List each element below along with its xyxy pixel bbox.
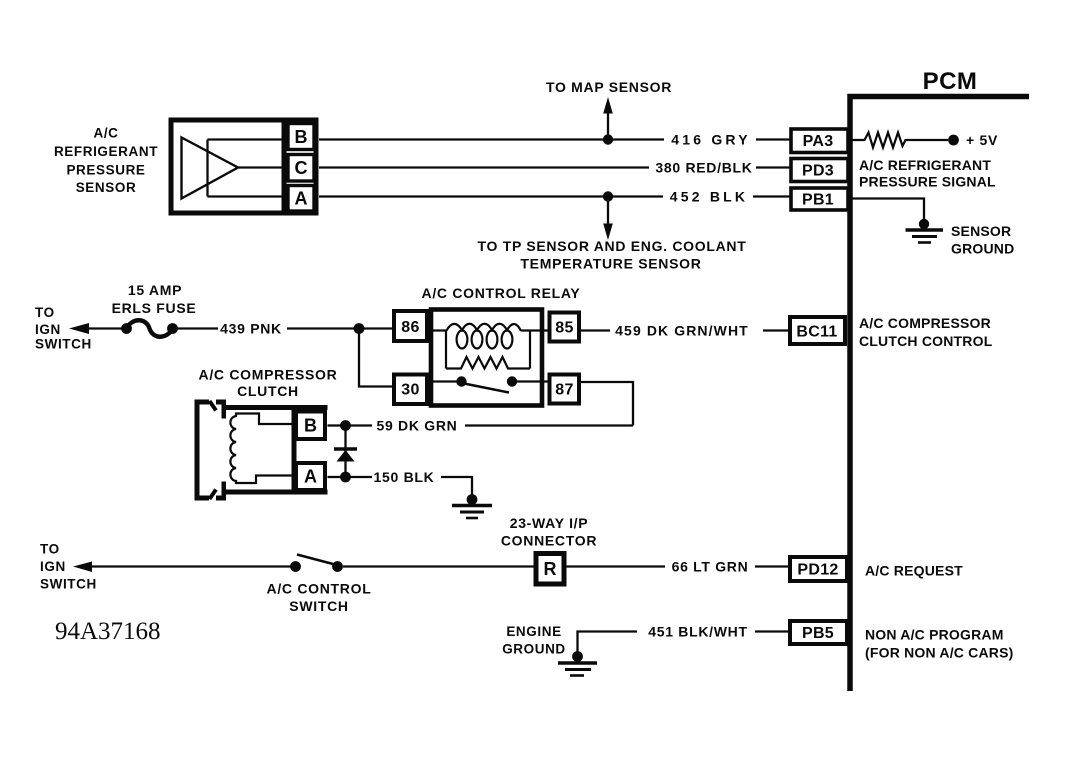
PCM pin PA3 — [791, 129, 848, 153]
wire 150 BLK clutch A to ground — [328, 476, 373, 478]
PCM pin PB5 — [790, 621, 847, 644]
svg-text:94A37168: 94A37168 — [55, 618, 161, 645]
relay coil shunt resistor — [446, 331, 530, 369]
svg-text:A/C REFRIGERANT: A/C REFRIGERANT — [859, 157, 991, 173]
sensor pin A — [288, 186, 314, 212]
svg-text:439 PNK: 439 PNK — [220, 321, 282, 337]
sensor amplifier triangle — [182, 138, 239, 199]
clutch pin A — [296, 463, 325, 490]
svg-text:SWITCH: SWITCH — [40, 577, 97, 592]
PCM enclosure line — [848, 94, 1030, 691]
wire 59 DK GRN clutch B — [328, 424, 634, 426]
svg-text:TO: TO — [40, 542, 60, 557]
arrow to IGN switch (bottom) — [73, 562, 293, 573]
compressor clutch body — [222, 405, 328, 495]
svg-text:+ 5V: + 5V — [966, 132, 998, 148]
junction on 452 BLK wire — [603, 191, 613, 201]
svg-text:15 AMP: 15 AMP — [128, 282, 182, 298]
svg-text:ENGINE: ENGINE — [506, 624, 561, 639]
svg-text:PA3: PA3 — [803, 133, 834, 150]
svg-text:A/C REQUEST: A/C REQUEST — [865, 563, 963, 579]
label TO IGN SWITCH (top) — [35, 305, 92, 352]
label 23-WAY I/P CONNECTOR — [501, 515, 597, 549]
svg-text:IGN: IGN — [40, 559, 66, 574]
A/C control switch S1 — [290, 555, 536, 572]
svg-text:TO MAP SENSOR: TO MAP SENSOR — [546, 79, 672, 95]
arrow to MAP sensor — [603, 97, 613, 140]
junction at clutch A — [340, 472, 351, 483]
junction at clutch B — [340, 420, 351, 431]
label A/C CONTROL SWITCH — [267, 581, 372, 615]
svg-text:A: A — [295, 189, 308, 209]
svg-text:451 BLK/WHT: 451 BLK/WHT — [648, 624, 748, 640]
relay pin 30 — [394, 375, 427, 405]
relay pin 85 — [550, 313, 580, 342]
wire PB1 to sensor ground — [850, 199, 924, 223]
PCM pin PD3 — [791, 159, 848, 182]
svg-text:TO TP SENSOR AND ENG. COOLANT: TO TP SENSOR AND ENG. COOLANT — [478, 238, 747, 254]
svg-text:PCM: PCM — [923, 68, 978, 95]
wire 66 LT GRN to PD12 — [564, 565, 790, 567]
svg-text:452 BLK: 452 BLK — [670, 189, 748, 205]
svg-text:ERLS FUSE: ERLS FUSE — [112, 300, 197, 316]
wire 439 PNK fuse to relay — [177, 327, 394, 329]
relay pin 86 — [394, 311, 427, 341]
svg-text:23-WAY I/P: 23-WAY I/P — [510, 515, 589, 531]
svg-text:A/C: A/C — [93, 126, 118, 141]
svg-text:SENSOR: SENSOR — [76, 180, 137, 195]
wire 459 DK GRN/WHT relay 85 to BC11 — [579, 329, 790, 331]
svg-text:B: B — [304, 416, 317, 436]
svg-text:CLUTCH: CLUTCH — [237, 383, 299, 399]
sensor U1 label "A/C REFRIGERANT PRESSURE SENSOR" — [54, 126, 158, 196]
svg-text:A/C CONTROL RELAY: A/C CONTROL RELAY — [422, 285, 581, 301]
wire 452 BLK from sensor pin A to PB1 — [319, 195, 790, 197]
sensor internal wiring — [208, 140, 285, 197]
fuse F1 15A ERLS — [121, 320, 178, 337]
svg-text:PB5: PB5 — [802, 625, 834, 642]
svg-text:SWITCH: SWITCH — [35, 337, 92, 352]
svg-text:A/C COMPRESSOR: A/C COMPRESSOR — [199, 367, 338, 383]
engine ground symbol — [558, 663, 597, 676]
clutch coil inner connector — [230, 414, 294, 484]
relay pin 87 — [550, 375, 580, 404]
clamping diode D1 — [334, 426, 357, 478]
svg-text:BC11: BC11 — [796, 324, 837, 341]
clutch ground symbol — [452, 506, 492, 519]
svg-text:TEMPERATURE SENSOR: TEMPERATURE SENSOR — [520, 256, 701, 272]
svg-text:A/C CONTROL: A/C CONTROL — [267, 581, 372, 597]
compressor clutch plate bracket — [195, 400, 227, 501]
svg-text:R: R — [544, 559, 557, 579]
23-way I/P connector R — [536, 554, 564, 585]
svg-text:150 BLK: 150 BLK — [374, 469, 435, 485]
sensor ground junction — [919, 219, 929, 229]
clutch ground junction — [467, 494, 478, 505]
svg-text:CONNECTOR: CONNECTOR — [501, 533, 597, 549]
svg-text:416 GRY: 416 GRY — [671, 132, 750, 148]
svg-text:NON A/C PROGRAM: NON A/C PROGRAM — [865, 627, 1004, 643]
svg-text:87: 87 — [555, 382, 573, 399]
wire 380 RED/BLK from sensor pin C to PD3 — [319, 166, 790, 168]
svg-text:459 DK GRN/WHT: 459 DK GRN/WHT — [615, 323, 749, 339]
sensor pin B — [288, 124, 314, 150]
label TO TP SENSOR AND ENG. COOLANT TEMPERATURE SENSOR — [478, 238, 747, 272]
svg-text:85: 85 — [555, 320, 573, 337]
svg-text:(FOR NON A/C CARS): (FOR NON A/C CARS) — [865, 645, 1014, 661]
junction on 416 GRY wire — [603, 134, 613, 144]
label A/C COMPRESSOR CLUTCH — [199, 367, 338, 400]
label 15 AMP ERLS FUSE — [112, 282, 197, 316]
svg-text:SWITCH: SWITCH — [289, 598, 348, 614]
engine ground junction — [572, 651, 583, 662]
svg-text:PD12: PD12 — [797, 562, 838, 579]
svg-text:PRESSURE: PRESSURE — [66, 163, 145, 178]
relay K1 body — [431, 310, 542, 406]
svg-text:A/C COMPRESSOR: A/C COMPRESSOR — [859, 315, 991, 331]
A/C refrigerant pressure sensor U1 body — [171, 118, 316, 214]
arrow to IGN switch — [69, 323, 122, 334]
label ENGINE GROUND — [502, 624, 566, 657]
svg-text:A: A — [304, 467, 317, 487]
wire junction down to relay pin 30 — [359, 329, 394, 387]
arrow to TP sensor — [603, 197, 613, 241]
svg-text:IGN: IGN — [35, 322, 61, 337]
label A/C REFRIGERANT PRESSURE SIGNAL — [859, 157, 996, 190]
label A/C COMPRESSOR CLUTCH CONTROL — [859, 315, 993, 349]
wire 451 BLK/WHT engine ground to PB5 — [578, 632, 791, 655]
PCM pin PB1 — [791, 188, 848, 210]
svg-text:30: 30 — [401, 382, 419, 399]
relay switch contacts — [429, 376, 550, 392]
pull-up resistor to +5V — [850, 133, 948, 148]
svg-text:TO: TO — [35, 305, 55, 320]
sensor pin C — [288, 155, 314, 182]
svg-text:66 LT GRN: 66 LT GRN — [672, 559, 749, 575]
svg-text:59 DK GRN: 59 DK GRN — [377, 418, 458, 434]
svg-text:B: B — [295, 127, 308, 147]
sensor ground symbol — [906, 230, 944, 243]
svg-text:CLUTCH CONTROL: CLUTCH CONTROL — [859, 333, 993, 349]
PCM pin BC11 — [790, 317, 845, 344]
svg-text:86: 86 — [401, 319, 419, 336]
svg-text:PD3: PD3 — [802, 163, 834, 180]
label NON A/C PROGRAM (FOR NON A/C CARS) — [865, 627, 1014, 661]
wire relay 87 down to clutch feed — [579, 382, 633, 426]
relay coil — [429, 324, 550, 349]
svg-text:GROUND: GROUND — [502, 642, 566, 657]
svg-text:GROUND: GROUND — [951, 241, 1014, 257]
svg-text:C: C — [295, 158, 308, 178]
wire 416 GRY from sensor pin B to PA3 — [319, 138, 790, 140]
svg-text:380 RED/BLK: 380 RED/BLK — [655, 160, 752, 176]
wire 150 BLK to clutch ground — [441, 477, 472, 498]
svg-text:SENSOR: SENSOR — [951, 223, 1011, 239]
PCM pin PD12 — [790, 557, 847, 581]
svg-text:PRESSURE SIGNAL: PRESSURE SIGNAL — [859, 174, 996, 190]
svg-text:REFRIGERANT: REFRIGERANT — [54, 144, 158, 159]
label SENSOR GROUND — [951, 223, 1014, 257]
node +5V — [948, 135, 959, 146]
svg-text:PB1: PB1 — [802, 192, 834, 209]
label TO IGN SWITCH (bottom) — [40, 542, 97, 592]
clutch pin B — [296, 412, 325, 440]
junction 439 PNK — [354, 323, 365, 334]
